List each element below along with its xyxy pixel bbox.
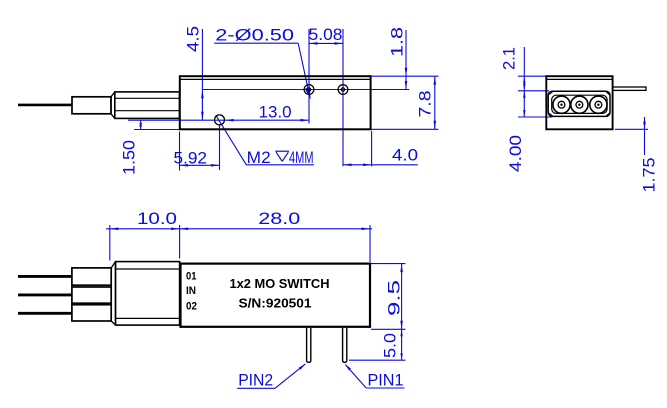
svg-text:4MM: 4MM bbox=[289, 149, 314, 167]
svg-text:PIN2: PIN2 bbox=[238, 372, 273, 390]
svg-text:4.5: 4.5 bbox=[185, 26, 203, 52]
svg-text:2.1: 2.1 bbox=[501, 47, 519, 70]
svg-text:7.8: 7.8 bbox=[417, 91, 435, 118]
svg-text:M2: M2 bbox=[247, 149, 271, 167]
svg-text:IN: IN bbox=[186, 285, 196, 297]
svg-text:1.75: 1.75 bbox=[641, 158, 659, 193]
svg-text:1.8: 1.8 bbox=[389, 27, 407, 57]
svg-text:4.0: 4.0 bbox=[392, 147, 418, 165]
svg-text:PIN1: PIN1 bbox=[368, 371, 404, 389]
svg-text:13.0: 13.0 bbox=[259, 104, 292, 122]
svg-text:28.0: 28.0 bbox=[258, 210, 300, 228]
svg-text:01: 01 bbox=[186, 271, 197, 283]
svg-text:2-Ø0.50: 2-Ø0.50 bbox=[215, 27, 294, 45]
svg-text:02: 02 bbox=[186, 301, 197, 313]
svg-text:5.08: 5.08 bbox=[309, 26, 343, 44]
svg-text:4.00: 4.00 bbox=[507, 135, 525, 172]
svg-text:S/N:920501: S/N:920501 bbox=[239, 296, 312, 311]
svg-text:9.5: 9.5 bbox=[386, 280, 404, 316]
svg-text:1x2 MO SWITCH: 1x2 MO SWITCH bbox=[230, 276, 330, 291]
svg-text:1.50: 1.50 bbox=[121, 140, 139, 175]
svg-text:5.0: 5.0 bbox=[382, 333, 400, 358]
svg-text:10.0: 10.0 bbox=[137, 210, 177, 228]
svg-text:5.92: 5.92 bbox=[174, 149, 208, 167]
